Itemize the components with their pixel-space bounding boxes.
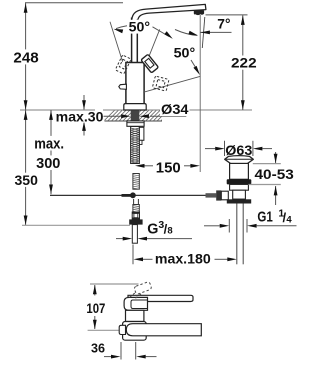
50deg lower leader arrow [191,60,198,72]
base plate [124,104,146,110]
base plate top view [123,322,147,341]
107 top extension line [90,283,139,285]
outlet tilted line 7deg [202,17,205,48]
faucet body [126,63,144,105]
spout bar top view [126,324,201,336]
mounting nut [127,121,144,126]
threaded shank [131,127,140,164]
dimension 222 [242,15,244,110]
dimension 36 [120,342,122,360]
dimension 40-53 [253,163,281,165]
dashed raised lever top view [130,281,152,298]
svg-text:222: 222 [231,55,257,71]
dimension max30 [83,95,85,110]
label 50deg lower [173,46,197,60]
body block top view [126,310,144,321]
107 bottom extension line [88,329,119,331]
svg-text:50°: 50° [129,20,150,35]
drain bottom flange [227,199,251,203]
50deg upper right arrow stroke [153,27,170,37]
lever bar top view [128,295,193,301]
svg-text:Ø34: Ø34 [161,101,189,117]
7deg leader [200,31,231,33]
shank through deck [131,110,140,121]
dimension 107 [94,285,96,296]
side knob on body [119,84,127,89]
drain seal ring [227,179,252,184]
braided hose lower [133,205,139,213]
drain lower body [230,184,249,190]
ray solid lever axis [146,29,160,63]
label 50deg upper [128,20,151,34]
svg-text:150: 150 [156,160,181,176]
svg-text:7°: 7° [217,17,230,32]
dimension max300 [50,110,52,194]
svg-text:350: 350 [15,172,39,188]
solid lever knob [141,54,159,73]
extension line top right (222) [206,14,248,16]
svg-text:4: 4 [286,214,292,225]
braided hose upper [133,174,139,190]
svg-text:G1: G1 [257,210,272,226]
tailpipe [236,204,238,265]
svg-text:300: 300 [36,156,60,172]
dimension 248 [25,3,27,110]
dimension 350 [25,110,27,225]
svg-text:107: 107 [86,300,105,316]
svg-text:8: 8 [167,225,172,236]
50deg upper left arc arrow [116,26,127,29]
pop-up rod [50,194,211,196]
dashed lever knob right [152,76,169,91]
ray forward lever axis [143,76,200,92]
dimension dia34 [104,115,122,117]
svg-text:max.30: max.30 [56,110,104,125]
dimension dia63 [205,148,215,150]
svg-text:G: G [147,221,158,237]
drain side knob [206,193,217,197]
side knob top view [119,325,125,334]
svg-text:50°: 50° [174,46,196,61]
dimension G3/8 [116,238,127,240]
dimension 150 [145,165,154,167]
deck hatching [104,110,172,121]
drain upper body [230,163,249,179]
arc arrow at outlet [175,30,197,36]
G3/8 nipple [132,225,137,244]
lever knob top view [124,297,147,310]
hose nut [129,219,142,224]
deck bottom line [104,120,163,122]
extension line top (248) [25,2,123,4]
dimension G1 1/4 [228,219,230,233]
svg-text:248: 248 [13,49,38,66]
hose plain section [133,199,135,205]
deck top line [20,109,252,111]
aerator [194,10,204,15]
svg-text:36: 36 [91,341,105,356]
dashed lever knob left [115,55,131,74]
rod guide block [139,127,144,140]
spout arm [132,4,206,19]
hose connector [132,212,139,219]
svg-text:max.180: max.180 [155,252,211,268]
lever shaft [131,18,133,63]
svg-text:40-53: 40-53 [255,166,295,182]
svg-text:max.: max. [34,136,64,152]
ray left dashed lever axis [110,22,123,62]
dia63 extension lines [224,141,226,156]
dimension max180 [132,245,134,265]
hose end line [22,224,130,226]
outlet vertical line [199,15,201,172]
drain flange dome [225,156,254,164]
